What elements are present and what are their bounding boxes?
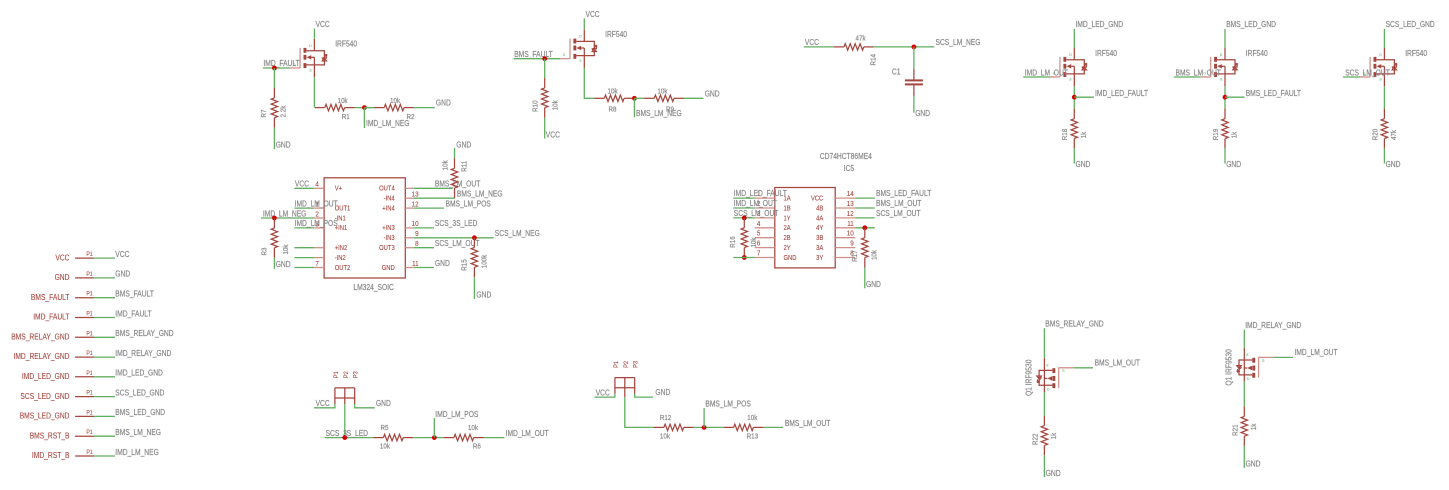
- svg-text:D: D: [1047, 387, 1049, 392]
- junction: [272, 66, 277, 71]
- svg-text:IMD_RELAY_GND: IMD_RELAY_GND: [14, 352, 70, 361]
- net label IMD_LED_GND: [1076, 20, 1124, 29]
- svg-text:R20: R20: [1370, 129, 1379, 141]
- svg-text:R12: R12: [660, 413, 672, 422]
- net label SCS_LM_NEG (pin9): [495, 229, 540, 238]
- wire: [413, 437, 444, 439]
- ground GND (JP1): [376, 399, 391, 408]
- connector P1 pin BMS_LED_GND: [20, 409, 94, 420]
- svg-text:R15: R15: [460, 259, 469, 271]
- ground GND (R11 top): [456, 140, 471, 149]
- wire: [325, 437, 374, 439]
- svg-text:P1: P1: [86, 409, 93, 416]
- wire: [414, 227, 434, 229]
- svg-text:IMD_LM_OUT: IMD_LM_OUT: [1025, 68, 1068, 77]
- svg-text:BMS_RST_B: BMS_RST_B: [30, 431, 70, 440]
- svg-text:5: 5: [757, 229, 761, 238]
- net label IMD_LM_OUT (gate): [1295, 348, 1338, 357]
- svg-text:VCC: VCC: [596, 388, 610, 397]
- wire: [635, 394, 653, 398]
- svg-text:100k: 100k: [480, 255, 489, 269]
- net label SCS_LM_OUT (gate): [1345, 68, 1390, 77]
- name label LM324_SOIC: [353, 283, 394, 292]
- svg-text:VCC: VCC: [55, 253, 69, 262]
- net label IMD_LM_POS: [295, 219, 339, 228]
- wire: [364, 107, 374, 109]
- resistor R13 10k: [724, 413, 764, 441]
- svg-text:SCS_LM_OUT: SCS_LM_OUT: [876, 209, 921, 218]
- svg-text:GND: GND: [1246, 460, 1261, 469]
- wire: [855, 197, 875, 199]
- wire: [1259, 356, 1293, 358]
- svg-text:SCS_LM_NEG: SCS_LM_NEG: [936, 38, 981, 47]
- net label IMD_LM_NEG: [366, 119, 410, 128]
- resistor R21 1k: [1230, 407, 1258, 447]
- jumper JP2 pins P1 P2 P3: [613, 361, 640, 394]
- resistor R10 10k: [531, 78, 560, 118]
- connector P1 pin BMS_FAULT: [31, 291, 94, 302]
- net label SCS_LM_OUT (12): [876, 209, 921, 218]
- svg-text:S: S: [309, 67, 311, 72]
- resistor R17 10k: [850, 228, 878, 268]
- net label VCC (pin4): [295, 180, 309, 189]
- svg-text:GND: GND: [915, 109, 930, 118]
- svg-text:BMS_LM_OUT: BMS_LM_OUT: [785, 419, 830, 428]
- svg-text:11: 11: [412, 259, 419, 268]
- svg-text:+IN2: +IN2: [335, 244, 348, 252]
- junction: [342, 435, 347, 440]
- svg-text:IRF540: IRF540: [335, 40, 357, 49]
- wire: [294, 187, 314, 189]
- svg-text:BMS_LED_GND: BMS_LED_GND: [115, 408, 165, 417]
- svg-text:VCC: VCC: [295, 180, 309, 189]
- net label IMD_RELAY_GND: [115, 349, 171, 358]
- junction: [432, 435, 437, 440]
- svg-text:11: 11: [847, 219, 854, 228]
- wire: [855, 227, 875, 229]
- net label BMS_LM_OUT (13): [876, 199, 921, 208]
- wire: [1225, 96, 1245, 98]
- svg-text:IMD_LM_OUT: IMD_LM_OUT: [506, 429, 549, 438]
- svg-text:10k: 10k: [338, 96, 348, 105]
- svg-text:10k: 10k: [390, 96, 400, 105]
- svg-text:9: 9: [415, 229, 419, 238]
- wire: [633, 98, 635, 117]
- svg-text:GND: GND: [436, 99, 451, 108]
- svg-text:7: 7: [315, 259, 319, 268]
- svg-text:3Y: 3Y: [816, 254, 823, 262]
- svg-text:10k: 10k: [468, 423, 478, 432]
- wire: [363, 108, 365, 128]
- wire: [703, 408, 705, 427]
- net label BMS_RELAY_GND: [1045, 320, 1103, 329]
- svg-text:R5: R5: [381, 423, 389, 432]
- wire: [1224, 148, 1226, 163]
- connector P1 pin BMS_RST_B: [30, 429, 94, 440]
- svg-text:BMS_RELAY_GND: BMS_RELAY_GND: [11, 333, 69, 342]
- svg-text:GND: GND: [1046, 469, 1061, 478]
- svg-text:VCC: VCC: [316, 20, 330, 29]
- wire: [733, 217, 755, 219]
- svg-text:R7: R7: [259, 110, 268, 118]
- svg-text:P1: P1: [86, 390, 93, 397]
- ground GND (R7): [276, 141, 291, 150]
- svg-text:C1: C1: [892, 68, 901, 77]
- svg-text:OUT4: OUT4: [379, 185, 395, 193]
- svg-text:R1: R1: [342, 112, 350, 121]
- ground GND (R2): [436, 99, 451, 108]
- svg-text:BMS_LM_POS: BMS_LM_POS: [705, 399, 751, 408]
- net label IMD_LED_GND: [115, 369, 163, 378]
- svg-text:IMD_LM_POS: IMD_LM_POS: [295, 219, 339, 228]
- svg-text:IRF540: IRF540: [1095, 49, 1117, 58]
- svg-text:R9: R9: [666, 105, 674, 114]
- net label IMD_LM_OUT: [295, 199, 338, 208]
- svg-text:GND: GND: [784, 254, 797, 262]
- svg-text:S: S: [1246, 352, 1248, 357]
- net label BMS_RELAY_GND: [115, 329, 173, 338]
- net label SCS_LM_OUT (1Y): [734, 209, 779, 218]
- wire: [94, 455, 115, 457]
- svg-text:R6: R6: [473, 442, 481, 451]
- svg-text:R8: R8: [609, 105, 617, 114]
- svg-text:BMS_FAULT: BMS_FAULT: [31, 293, 70, 302]
- connector P1 pin SCS_LED_GND: [20, 390, 94, 401]
- svg-text:D: D: [579, 34, 581, 39]
- net label BMS_LM_OUT (JP2 out): [785, 419, 830, 428]
- wire: [414, 107, 435, 109]
- net label IMD_RELAY_GND: [1245, 321, 1301, 330]
- svg-text:SCS_LED_GND: SCS_LED_GND: [20, 392, 69, 401]
- name label CD74HCT86ME4 IC5: [820, 152, 873, 173]
- power VCC (JP2): [596, 388, 610, 397]
- wire: [433, 418, 435, 438]
- svg-text:10k: 10k: [550, 100, 559, 110]
- svg-text:BMS_LM_OUT: BMS_LM_OUT: [1176, 68, 1221, 77]
- svg-text:BMS_FAULT: BMS_FAULT: [115, 290, 154, 299]
- svg-text:IMD_RST_B: IMD_RST_B: [32, 451, 70, 460]
- svg-text:10k: 10k: [380, 442, 390, 451]
- svg-text:P1: P1: [333, 371, 340, 378]
- net label BMS_LM_OUT (gate): [1095, 359, 1140, 368]
- svg-text:47k: 47k: [856, 34, 866, 43]
- wire: [544, 118, 546, 139]
- svg-text:IRF540: IRF540: [1246, 49, 1268, 58]
- wire: [94, 336, 115, 338]
- svg-text:BMS_LED_FAULT: BMS_LED_FAULT: [876, 189, 931, 198]
- wire: [414, 197, 455, 199]
- resistor R2 10k: [374, 96, 414, 121]
- ground GND (C1): [915, 109, 930, 118]
- svg-text:P1: P1: [86, 449, 93, 456]
- svg-text:IMD_LM_NEG: IMD_LM_NEG: [366, 119, 410, 128]
- net label SCS_LM_OUT (pin8): [435, 239, 480, 248]
- wire: [414, 247, 434, 249]
- net label BMS_LM_OUT (gate): [1176, 68, 1221, 77]
- resistor R18 1k: [1060, 109, 1088, 149]
- svg-text:10k: 10k: [440, 160, 449, 170]
- svg-text:SCS_LED_GND: SCS_LED_GND: [115, 388, 164, 397]
- junction: [632, 96, 637, 101]
- svg-text:3B: 3B: [816, 234, 823, 242]
- wire: [1043, 455, 1045, 477]
- svg-text:GND: GND: [55, 273, 70, 282]
- svg-text:Q1 IRF9530: Q1 IRF9530: [1224, 349, 1233, 386]
- resistor R12 10k: [654, 413, 694, 441]
- svg-text:G: G: [563, 52, 566, 57]
- wire: [1243, 382, 1245, 407]
- svg-text:IMD_RELAY_GND: IMD_RELAY_GND: [1245, 321, 1301, 330]
- svg-text:P1: P1: [86, 350, 93, 357]
- svg-text:10: 10: [412, 219, 419, 228]
- svg-text:BMS_LM_POS: BMS_LM_POS: [446, 199, 492, 208]
- svg-text:GND: GND: [276, 260, 291, 269]
- svg-text:IMD_LED_FAULT: IMD_LED_FAULT: [1095, 89, 1148, 98]
- svg-text:1k: 1k: [1230, 132, 1239, 139]
- wire: [94, 376, 115, 378]
- svg-text:4: 4: [757, 219, 761, 228]
- svg-text:2A: 2A: [784, 224, 791, 232]
- connector P1 pin VCC: [55, 251, 94, 262]
- connector P1 pin IMD_LED_GND: [22, 370, 94, 381]
- svg-text:R21: R21: [1230, 424, 1239, 436]
- svg-text:IMD_LED_GND: IMD_LED_GND: [115, 369, 163, 378]
- svg-text:D: D: [1247, 376, 1249, 381]
- wire: [804, 46, 834, 48]
- svg-text:13: 13: [412, 190, 419, 199]
- svg-text:OUT2: OUT2: [335, 264, 351, 272]
- svg-text:10k: 10k: [747, 413, 757, 422]
- power VCC (R14): [805, 38, 819, 47]
- svg-text:VCC: VCC: [115, 250, 129, 259]
- capacitor C1: [892, 68, 923, 96]
- svg-text:IMD_LED_FAULT: IMD_LED_FAULT: [734, 189, 787, 198]
- junction: [702, 425, 707, 430]
- wire: [355, 404, 375, 408]
- svg-text:2: 2: [315, 209, 319, 218]
- transistor Q - IRF540 IMD: [293, 39, 327, 77]
- value label IRF540: [335, 40, 357, 49]
- svg-text:SCS_LM_OUT: SCS_LM_OUT: [1345, 68, 1390, 77]
- svg-text:SCS_LM_OUT: SCS_LM_OUT: [435, 239, 480, 248]
- wire: [1174, 76, 1211, 78]
- svg-text:IMD_LM_OUT: IMD_LM_OUT: [1295, 348, 1338, 357]
- svg-text:10k: 10k: [749, 237, 758, 247]
- svg-text:47k: 47k: [1389, 130, 1398, 140]
- svg-text:P1: P1: [86, 311, 93, 318]
- svg-text:LM324_SOIC: LM324_SOIC: [353, 283, 394, 292]
- ground GND (R18): [1076, 160, 1091, 169]
- net label SCS_LM_NEG: [936, 38, 981, 47]
- svg-text:8: 8: [415, 239, 419, 248]
- svg-text:GND: GND: [382, 264, 395, 272]
- junction: [1223, 95, 1228, 100]
- power VCC (R10 bottom): [546, 130, 560, 139]
- connector P1 pin IMD_RELAY_GND: [14, 350, 95, 361]
- wire: [913, 47, 915, 69]
- svg-text:+IN3: +IN3: [382, 224, 395, 232]
- wire: [294, 247, 314, 249]
- wire: [1383, 29, 1385, 48]
- svg-text:4B: 4B: [816, 204, 823, 212]
- svg-text:GND: GND: [476, 290, 491, 299]
- svg-text:CD74HCT86ME4: CD74HCT86ME4: [820, 152, 873, 161]
- wire: [1023, 76, 1060, 78]
- svg-text:IMD_LM_NEG: IMD_LM_NEG: [263, 209, 307, 218]
- ground GND (pin11): [435, 259, 450, 268]
- wire: [1343, 76, 1370, 78]
- ground GND (R22): [1046, 469, 1061, 478]
- svg-text:P1: P1: [86, 271, 93, 278]
- net label BMS_FAULT: [514, 50, 553, 59]
- svg-text:SCS_3S_LED: SCS_3S_LED: [435, 219, 478, 228]
- svg-text:P1: P1: [86, 370, 93, 377]
- svg-text:R3: R3: [260, 248, 269, 256]
- name label Q1 IRF9530: [1025, 359, 1034, 396]
- wire: [414, 237, 494, 239]
- ground GND (R20): [1386, 160, 1401, 169]
- transistor Q - IRF540 BMS: [563, 30, 597, 68]
- net label BMS_LM_POS (pin12): [446, 199, 492, 208]
- wire: [473, 277, 475, 299]
- svg-text:S: S: [1069, 76, 1071, 81]
- svg-text:10: 10: [847, 229, 854, 238]
- svg-text:R11: R11: [459, 161, 468, 172]
- resistor R11 10k: [440, 158, 468, 198]
- svg-text:VCC: VCC: [805, 38, 819, 47]
- svg-text:3A: 3A: [816, 244, 823, 252]
- wire: [273, 258, 275, 269]
- junction: [742, 255, 747, 260]
- svg-text:R18: R18: [1060, 129, 1069, 141]
- wire: [855, 207, 875, 209]
- net label IMD_LM_OUT (JP1 out): [506, 429, 549, 438]
- svg-text:R14: R14: [868, 54, 877, 66]
- svg-text:1B: 1B: [784, 204, 791, 212]
- svg-text:BMS_FAULT: BMS_FAULT: [514, 50, 553, 59]
- svg-text:R19: R19: [1211, 129, 1220, 141]
- svg-text:10k: 10k: [660, 431, 670, 440]
- jumper JP1 pins P1 P2 P3: [333, 371, 360, 404]
- ground GND (JP2): [655, 388, 670, 397]
- svg-text:4: 4: [315, 180, 319, 189]
- wire: [1224, 29, 1226, 48]
- wire: [733, 257, 755, 259]
- net label VCC: [115, 250, 129, 259]
- wire: [1243, 330, 1245, 348]
- wire: [855, 217, 875, 219]
- svg-text:4Y: 4Y: [816, 224, 823, 232]
- net label BMS_LM_OUT (pin14): [435, 180, 480, 189]
- svg-text:P1: P1: [86, 291, 93, 298]
- svg-text:S: S: [579, 58, 581, 63]
- ground GND (R17): [866, 280, 881, 289]
- svg-text:GND: GND: [435, 259, 450, 268]
- svg-text:BMS_LED_GND: BMS_LED_GND: [1226, 20, 1276, 29]
- wire: [514, 58, 570, 60]
- wire: [94, 277, 115, 279]
- svg-text:IMD_LED_GND: IMD_LED_GND: [1076, 20, 1124, 29]
- svg-text:7: 7: [757, 249, 761, 258]
- ground GND (R3): [276, 260, 291, 269]
- net label GND: [115, 270, 130, 279]
- resistor R16 10k: [728, 218, 758, 258]
- svg-text:P1: P1: [86, 330, 93, 337]
- net label BMS_LED_GND: [115, 408, 165, 417]
- wire: [583, 18, 585, 29]
- resistor R8 10k: [594, 87, 634, 114]
- wire: [94, 257, 115, 259]
- svg-text:BMS_RELAY_GND: BMS_RELAY_GND: [115, 329, 173, 338]
- svg-text:V+: V+: [335, 185, 342, 193]
- wire: [94, 356, 115, 358]
- resistor R14 47k: [834, 34, 877, 66]
- connector P1 pin GND: [55, 271, 94, 282]
- resistor R9 10k: [644, 87, 684, 114]
- ground GND (R21): [1246, 460, 1261, 469]
- svg-text:GND: GND: [1226, 160, 1241, 169]
- wire: [294, 207, 314, 209]
- wire: [625, 394, 654, 428]
- svg-text:BMS_LM_NEG: BMS_LM_NEG: [457, 189, 503, 198]
- wire: [1043, 392, 1045, 416]
- svg-text:VCC: VCC: [316, 399, 330, 408]
- svg-text:D: D: [1220, 52, 1222, 57]
- svg-text:2B: 2B: [784, 234, 791, 242]
- svg-text:IMD_LM_POS: IMD_LM_POS: [435, 410, 479, 419]
- svg-text:1k: 1k: [1079, 132, 1088, 139]
- resistor R3 10k: [260, 218, 290, 258]
- svg-text:BMS_LED_FAULT: BMS_LED_FAULT: [1246, 89, 1301, 98]
- svg-text:BMS_LM_NEG: BMS_LM_NEG: [115, 428, 161, 437]
- transistor IRF540 BMS LED driver: [1204, 48, 1238, 86]
- svg-text:SCS_LM_NEG: SCS_LM_NEG: [495, 229, 540, 238]
- net label IMD_LM_OUT (gate): [1025, 68, 1068, 77]
- net label SCS_LED_GND: [115, 388, 164, 397]
- transistor IRF540 SCS LED driver: [1363, 48, 1397, 86]
- svg-text:4A: 4A: [816, 214, 823, 222]
- svg-text:IMD_LM_NEG: IMD_LM_NEG: [115, 448, 159, 457]
- value label IRF540: [1405, 49, 1427, 58]
- svg-text:GND: GND: [276, 141, 291, 150]
- resistor R1 10k: [315, 96, 355, 121]
- net label BMS_LED_GND: [1226, 20, 1276, 29]
- net label IMD_LM_OUT (1B): [734, 199, 777, 208]
- svg-text:IRF540: IRF540: [605, 30, 627, 39]
- svg-text:BMS_LM_OUT: BMS_LM_OUT: [876, 199, 921, 208]
- svg-text:IMD_LM_OUT: IMD_LM_OUT: [295, 199, 338, 208]
- wire: [1383, 86, 1385, 109]
- svg-text:1k: 1k: [1049, 433, 1058, 440]
- svg-text:1Y: 1Y: [784, 214, 791, 222]
- power VCC (BMS latch): [586, 10, 600, 19]
- net label SCS_3S_LED (pin10): [435, 219, 478, 228]
- wire: [94, 297, 115, 299]
- resistor R6 10k: [444, 423, 484, 451]
- net label IMD_FAULT: [115, 309, 151, 318]
- svg-text:OUT3: OUT3: [379, 244, 395, 252]
- wire: [634, 97, 644, 99]
- junction: [1072, 95, 1077, 100]
- resistor R7 2.2k: [259, 88, 287, 128]
- svg-text:14: 14: [847, 189, 854, 198]
- resistor R15 100k: [460, 238, 489, 278]
- wire: [94, 396, 115, 398]
- wire: [313, 77, 315, 107]
- svg-text:10k: 10k: [608, 87, 618, 96]
- wire: [1073, 86, 1075, 109]
- svg-text:+IN4: +IN4: [382, 204, 395, 212]
